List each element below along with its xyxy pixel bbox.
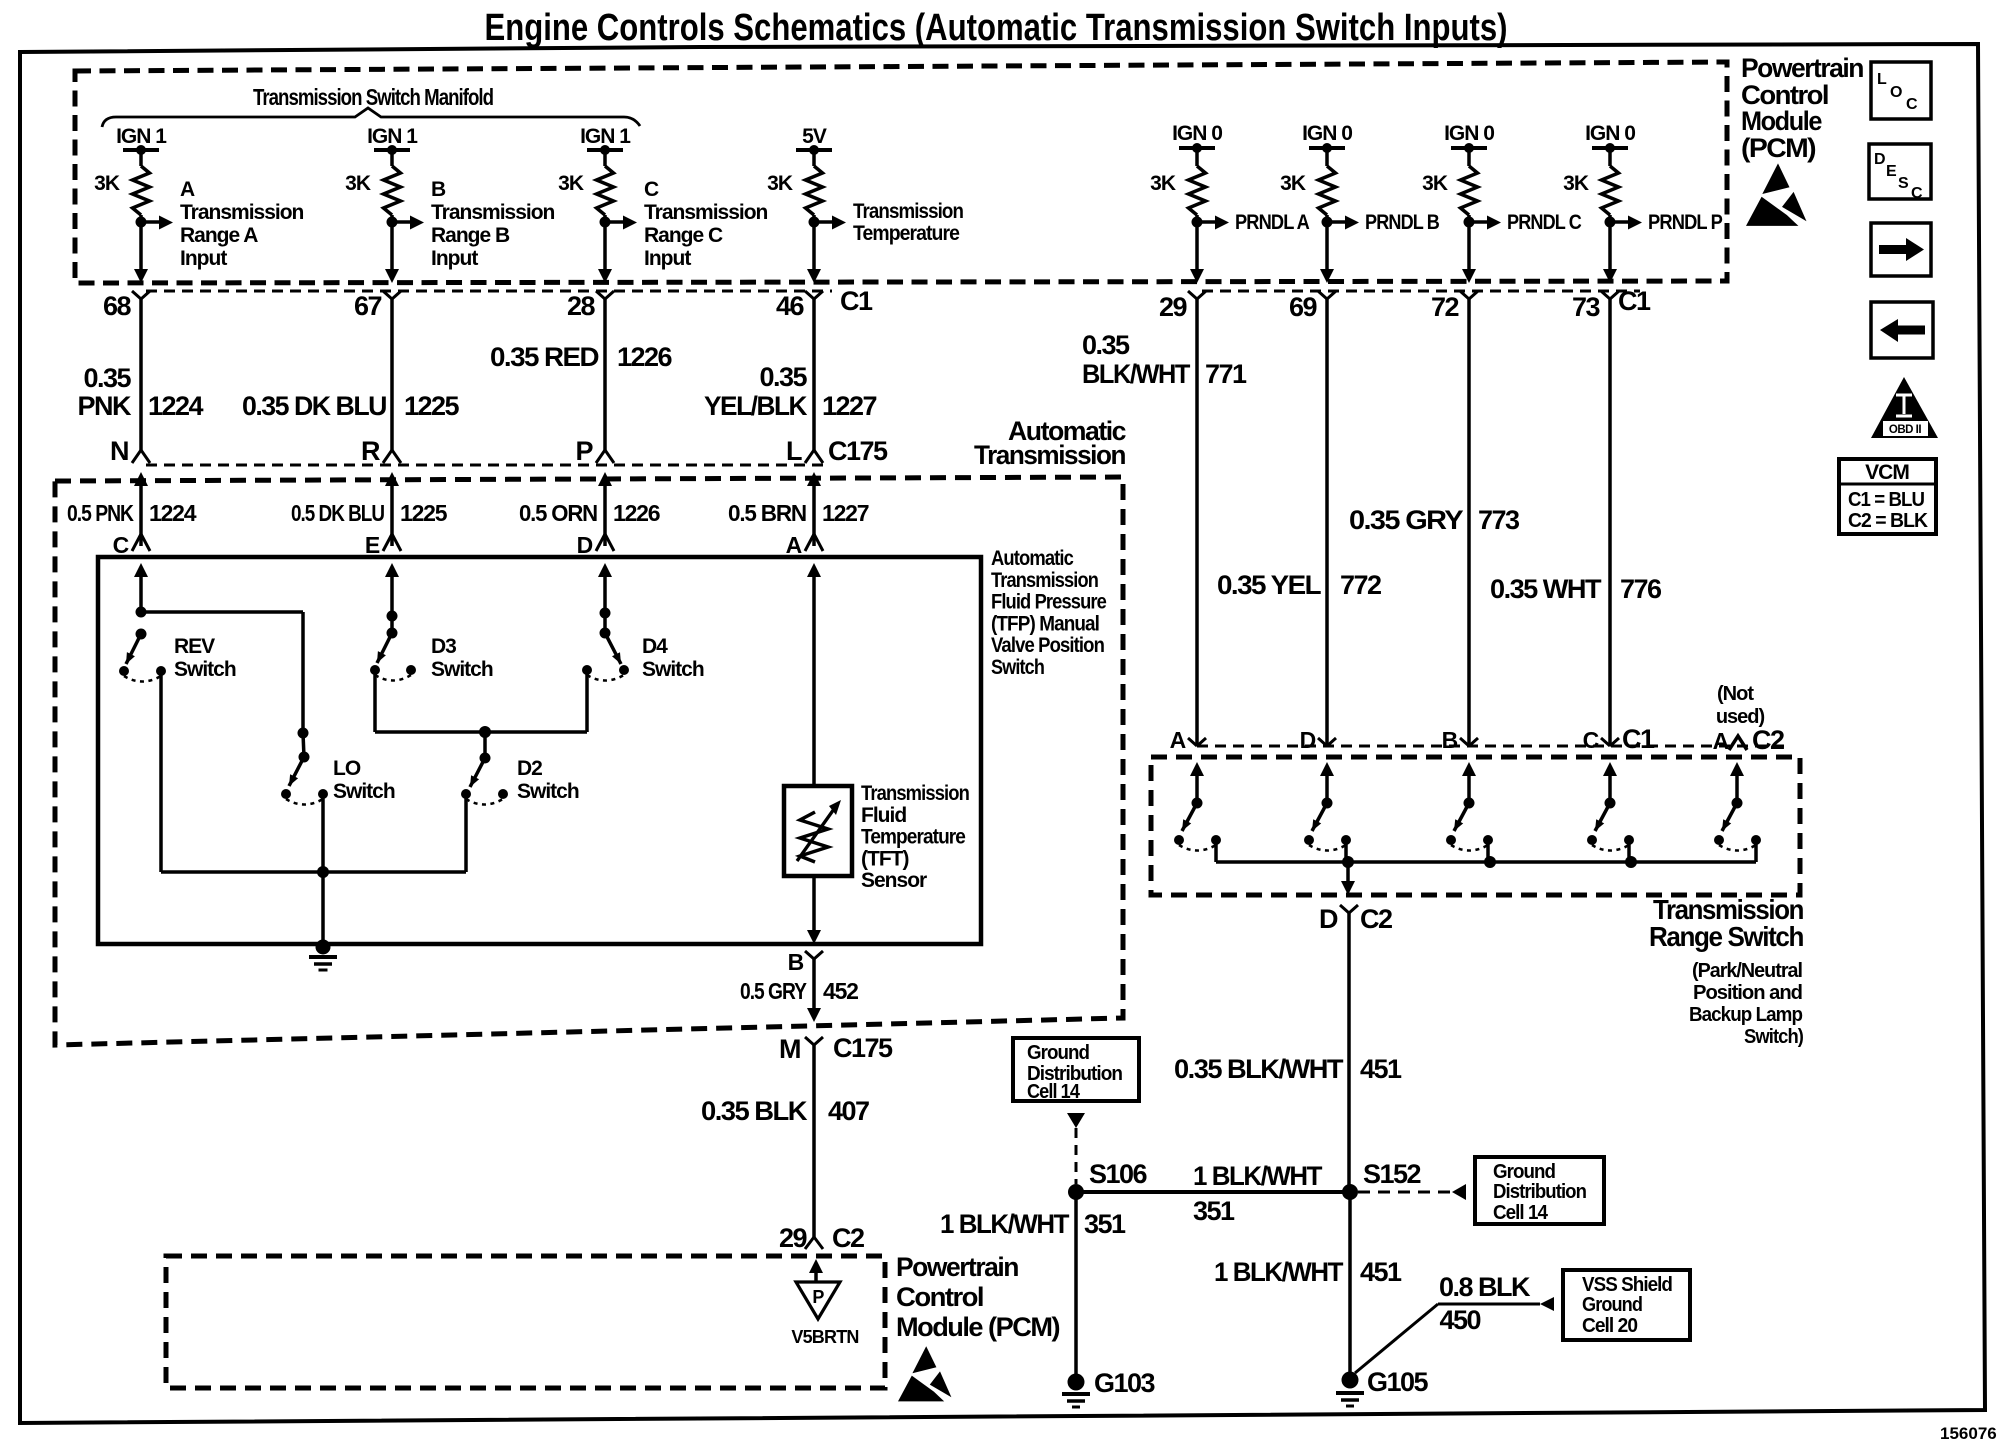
svg-text:Switch: Switch xyxy=(431,658,493,681)
wire into TFP switch xyxy=(385,563,399,577)
arrowhead into connector C1 pin 29 xyxy=(1190,269,1204,283)
svg-text:776: 776 xyxy=(1620,574,1662,604)
svg-text:Switch): Switch) xyxy=(1744,1026,1803,1048)
svg-text:Ground: Ground xyxy=(1493,1161,1555,1183)
signal arrow PRNDL B xyxy=(1327,220,1345,224)
wire 1226 ORN (C175-P to TFP-D) xyxy=(598,472,612,486)
resistor R1 3K xyxy=(133,166,150,215)
signal arrow C xyxy=(605,220,623,224)
signal arrow Transmission Temperature xyxy=(814,220,832,224)
svg-text:IGN 0: IGN 0 xyxy=(1444,122,1494,145)
wire 1224 PNK (C175-N to TFP-C) xyxy=(134,472,148,486)
svg-text:0.5 ORN: 0.5 ORN xyxy=(519,500,598,526)
svg-text:S106: S106 xyxy=(1089,1159,1148,1189)
svg-text:IGN 1: IGN 1 xyxy=(580,125,631,148)
svg-text:D2: D2 xyxy=(517,757,542,780)
svg-text:L: L xyxy=(786,436,802,466)
wire ground bus of TFP switch xyxy=(161,870,466,874)
wire D2 contact down to bus xyxy=(464,794,468,872)
svg-text:Transmission: Transmission xyxy=(974,440,1125,470)
svg-text:0.5 GRY: 0.5 GRY xyxy=(740,978,807,1004)
svg-text:C1: C1 xyxy=(1622,724,1655,754)
wire branch to LO switch xyxy=(301,612,305,733)
svg-text:46: 46 xyxy=(776,291,805,321)
connector pin D of TFP switch xyxy=(596,534,614,551)
PCM top dashed box (Powertrain Control Module) xyxy=(75,62,1727,283)
wire 772 YEL (pin 69 to TRS-D) xyxy=(1325,299,1329,744)
svg-text:Transmission: Transmission xyxy=(431,201,555,224)
svg-text:IGN 1: IGN 1 xyxy=(116,125,167,148)
svg-text:3K: 3K xyxy=(345,172,371,195)
svg-text:D: D xyxy=(1300,727,1316,753)
connector C1/C2 dashed boundary (Transmission Range Switch) xyxy=(1197,745,1790,748)
node D2 feed junction xyxy=(479,726,491,738)
svg-text:0.8 BLK: 0.8 BLK xyxy=(1439,1272,1531,1302)
svg-text:IGN 0: IGN 0 xyxy=(1585,122,1635,145)
svg-text:P: P xyxy=(812,1287,824,1307)
D2 Switch xyxy=(483,732,487,758)
brace under Transmission Switch Manifold xyxy=(102,108,640,127)
dashed link S152 to Ground Distribution Cell 14 xyxy=(1358,1191,1452,1194)
svg-text:D: D xyxy=(1319,904,1338,934)
svg-text:D: D xyxy=(1874,151,1886,168)
svg-text:Powertrain: Powertrain xyxy=(896,1252,1018,1282)
D3 Switch xyxy=(387,611,398,622)
svg-text:M: M xyxy=(779,1034,800,1064)
icon DESC box xyxy=(1869,144,1931,199)
wire TRS output to connector D C2 xyxy=(1346,862,1350,883)
svg-text:BLK/WHT: BLK/WHT xyxy=(1082,359,1191,389)
svg-text:0.35: 0.35 xyxy=(759,362,807,392)
svg-text:452: 452 xyxy=(823,978,858,1004)
svg-text:O: O xyxy=(1890,84,1902,101)
wire D3 contact down to bus xyxy=(373,670,377,732)
svg-text:C175: C175 xyxy=(828,436,888,466)
wire TRS common bus xyxy=(1216,860,1756,864)
wire TRS contact to common bus xyxy=(1344,840,1348,862)
connector C1 pin 67 xyxy=(383,291,401,299)
signal arrow A xyxy=(141,220,159,224)
ground G105 xyxy=(1342,1372,1359,1389)
connector C1 pin 72 xyxy=(1460,291,1478,299)
icon arrow left box xyxy=(1871,302,1933,358)
svg-text:(TFP) Manual: (TFP) Manual xyxy=(991,612,1099,635)
svg-text:Input: Input xyxy=(644,247,691,270)
svg-text:Cell 14: Cell 14 xyxy=(1027,1081,1081,1103)
svg-text:Switch: Switch xyxy=(991,656,1044,679)
TRS switch element xyxy=(1190,762,1204,776)
Transmission Range Switch dashed box xyxy=(1151,757,1800,895)
connector pin E of TFP switch xyxy=(383,534,401,551)
svg-text:Control: Control xyxy=(896,1282,983,1312)
svg-text:P: P xyxy=(575,436,593,466)
svg-text:Range C: Range C xyxy=(644,224,723,247)
svg-text:IGN 0: IGN 0 xyxy=(1302,122,1352,145)
wire from R4 to PCM pin 46 xyxy=(812,215,816,270)
svg-text:0.5 BRN: 0.5 BRN xyxy=(728,500,807,526)
svg-text:(PCM): (PCM) xyxy=(1741,133,1816,163)
wire from R6 to PCM pin 69 xyxy=(1325,215,1329,270)
icon OBD II triangle xyxy=(1871,377,1938,438)
svg-text:IGN 0: IGN 0 xyxy=(1172,122,1222,145)
svg-text:Ground: Ground xyxy=(1027,1042,1089,1064)
svg-text:Switch: Switch xyxy=(333,780,395,803)
ground G103 xyxy=(1068,1374,1085,1391)
svg-text:Position and: Position and xyxy=(1693,982,1802,1004)
wire from R8 to PCM pin 73 xyxy=(1608,215,1612,270)
svg-text:VCM: VCM xyxy=(1865,461,1909,484)
wire LO contact down to bus xyxy=(321,794,325,872)
svg-text:N: N xyxy=(110,436,128,466)
svg-text:Powertrain: Powertrain xyxy=(1741,53,1863,83)
svg-text:A: A xyxy=(180,178,195,201)
svg-text:Input: Input xyxy=(431,247,478,270)
connector C1 pin 73 xyxy=(1601,291,1619,299)
connector C175 pin P xyxy=(596,450,614,463)
svg-text:C: C xyxy=(1583,727,1599,753)
TRS switch element xyxy=(1603,762,1617,776)
svg-text:B: B xyxy=(431,178,446,201)
connector C1 pin A of TRS xyxy=(1188,738,1206,746)
TRS switch element xyxy=(1730,762,1744,776)
PCM bottom dashed box (Powertrain Control Module) xyxy=(166,1256,885,1388)
arrowhead into connector C1 pin 67 xyxy=(385,269,399,283)
svg-text:VSS Shield: VSS Shield xyxy=(1582,1274,1672,1296)
svg-text:E: E xyxy=(365,532,380,558)
svg-text:1 BLK/WHT: 1 BLK/WHT xyxy=(1214,1257,1344,1287)
svg-text:73: 73 xyxy=(1572,292,1601,322)
Automatic Transmission dashed box xyxy=(55,477,1123,1045)
svg-text:PRNDL B: PRNDL B xyxy=(1365,211,1440,234)
TRS switch element xyxy=(1320,762,1334,776)
svg-text:C2: C2 xyxy=(1360,904,1392,934)
VSS Shield Ground Cell 20 box xyxy=(1563,1270,1690,1340)
svg-text:Sensor: Sensor xyxy=(861,869,927,892)
svg-text:G105: G105 xyxy=(1367,1367,1429,1397)
svg-text:Fluid: Fluid xyxy=(861,804,906,827)
svg-text:Switch: Switch xyxy=(174,658,236,681)
connector pin C of TFP switch xyxy=(132,534,150,551)
svg-text:67: 67 xyxy=(354,291,382,321)
svg-text:D4: D4 xyxy=(642,635,668,658)
wire 1225 DK BLU (pin 67 to C175-R) xyxy=(390,299,394,450)
svg-text:C175: C175 xyxy=(833,1033,893,1063)
svg-text:Transmission: Transmission xyxy=(644,201,768,224)
svg-text:3K: 3K xyxy=(558,172,584,195)
svg-text:1 BLK/WHT: 1 BLK/WHT xyxy=(1193,1161,1323,1191)
svg-text:0.35: 0.35 xyxy=(83,363,131,393)
connector C1 dashed boundary (right) xyxy=(1202,290,1640,293)
svg-text:451: 451 xyxy=(1360,1054,1402,1084)
wire from R5 to PCM pin 29 xyxy=(1195,215,1199,270)
wire REV contact down to bus xyxy=(159,671,163,872)
svg-text:Automatic: Automatic xyxy=(991,547,1074,570)
svg-text:A: A xyxy=(1713,728,1729,754)
svg-text:72: 72 xyxy=(1431,292,1459,322)
TRS switch element xyxy=(1462,762,1476,776)
REV Switch xyxy=(136,607,147,618)
wire into TFP switch xyxy=(598,563,612,577)
svg-text:G103: G103 xyxy=(1094,1368,1156,1398)
wire TRS contact to common bus xyxy=(1754,840,1758,862)
connector C1 pin 28 xyxy=(596,291,614,299)
svg-text:C2: C2 xyxy=(1752,725,1784,755)
arrowhead into connector C1 pin 46 xyxy=(807,269,821,283)
svg-text:(Not: (Not xyxy=(1717,683,1754,705)
svg-text:REV: REV xyxy=(174,635,215,658)
signal arrow PRNDL P xyxy=(1610,220,1628,224)
svg-text:Switch: Switch xyxy=(517,780,579,803)
wire TRS contact to common bus xyxy=(1214,840,1218,862)
wire 1227 YEL/BLK (pin 46 to C175-L) xyxy=(812,299,816,450)
Ground Distribution Cell 14 box (upper) xyxy=(1013,1038,1139,1101)
svg-text:1 BLK/WHT: 1 BLK/WHT xyxy=(940,1209,1070,1239)
svg-text:3K: 3K xyxy=(94,172,120,195)
svg-text:V5BRTN: V5BRTN xyxy=(791,1327,858,1347)
connector C1 dashed boundary (left) xyxy=(146,290,832,293)
wire into PCM V5BRTN xyxy=(809,1259,823,1273)
resistor R3 3K xyxy=(597,166,614,215)
resistor R4 3K xyxy=(806,166,823,215)
svg-text:D: D xyxy=(577,532,593,558)
svg-text:PRNDL C: PRNDL C xyxy=(1507,211,1582,234)
svg-text:3K: 3K xyxy=(1422,172,1448,195)
svg-text:407: 407 xyxy=(828,1096,869,1126)
svg-text:Range B: Range B xyxy=(431,224,510,247)
svg-text:0.35 BLK/WHT: 0.35 BLK/WHT xyxy=(1174,1054,1344,1084)
connector C175 pin N xyxy=(132,450,150,463)
wire 773 GRY (pin 72 to TRS-B) xyxy=(1467,299,1471,744)
ESD sensitive symbol (bottom PCM) xyxy=(912,1346,936,1373)
arrowhead into connector C1 pin 73 xyxy=(1603,269,1617,283)
dashed link Ground Distribution to S106 xyxy=(1067,1113,1085,1128)
svg-text:29: 29 xyxy=(779,1223,808,1253)
svg-text:(Park/Neutral: (Park/Neutral xyxy=(1692,960,1802,982)
resistor R8 3K xyxy=(1602,166,1619,215)
svg-text:Range A: Range A xyxy=(180,224,258,247)
connector C1 pin D of TRS xyxy=(1318,738,1336,746)
wire TFT sensor to pin B xyxy=(812,876,816,932)
svg-text:Fluid Pressure: Fluid Pressure xyxy=(991,591,1106,614)
svg-text:771: 771 xyxy=(1205,359,1247,389)
ESD sensitive symbol (top PCM) xyxy=(1762,163,1789,194)
arrowhead into connector C1 pin 72 xyxy=(1462,269,1476,283)
svg-text:351: 351 xyxy=(1084,1209,1126,1239)
svg-text:Module (PCM): Module (PCM) xyxy=(896,1312,1059,1342)
wire 351 BLK/WHT (S106 to S152) xyxy=(1076,1190,1350,1194)
wire 407 BLK (C175-M to PCM pin 29 C2) xyxy=(812,1045,816,1237)
svg-text:0.5 PNK: 0.5 PNK xyxy=(67,500,134,526)
svg-text:29: 29 xyxy=(1159,292,1188,322)
svg-text:1224: 1224 xyxy=(148,391,204,421)
svg-text:A: A xyxy=(1170,727,1186,753)
TFT sensor (Transmission Fluid Temperature) xyxy=(784,786,852,876)
connector C1 pin C of TRS xyxy=(1601,738,1619,746)
svg-text:PRNDL P: PRNDL P xyxy=(1648,211,1723,234)
svg-text:3K: 3K xyxy=(1150,172,1176,195)
svg-text:1224: 1224 xyxy=(149,500,197,526)
svg-text:1226: 1226 xyxy=(613,500,660,526)
svg-text:0.5 DK BLU: 0.5 DK BLU xyxy=(291,500,384,526)
svg-text:0.35 RED: 0.35 RED xyxy=(490,342,599,372)
svg-text:Transmission: Transmission xyxy=(180,201,304,224)
signal arrow B xyxy=(392,220,410,224)
svg-text:YEL/BLK: YEL/BLK xyxy=(704,391,808,421)
icon arrow right box xyxy=(1871,223,1931,276)
svg-text:C1: C1 xyxy=(840,286,873,316)
signal arrow PRNDL A xyxy=(1197,220,1215,224)
arrowhead into connector C1 pin 68 xyxy=(134,269,148,283)
D4 Switch xyxy=(600,608,611,619)
svg-text:Transmission Switch Manifold: Transmission Switch Manifold xyxy=(253,84,493,110)
svg-text:0.35 DK BLU: 0.35 DK BLU xyxy=(242,391,386,421)
wire 1227 BRN (C175-L to TFP-A) xyxy=(807,472,821,486)
connector C1 pin B of TRS xyxy=(1460,738,1478,746)
svg-text:A: A xyxy=(786,532,802,558)
connector C175 dashed boundary xyxy=(146,464,830,467)
wire from R1 to PCM pin 68 xyxy=(139,215,143,270)
svg-text:S152: S152 xyxy=(1363,1159,1421,1189)
ground (TFP switch case) xyxy=(316,940,331,955)
svg-text:Input: Input xyxy=(180,247,227,270)
svg-text:C2: C2 xyxy=(832,1223,864,1253)
svg-text:Cell 20: Cell 20 xyxy=(1582,1315,1638,1337)
connector C1 pin 69 xyxy=(1318,291,1336,299)
connector pin A of TFP switch xyxy=(805,534,823,551)
svg-text:3K: 3K xyxy=(767,172,793,195)
svg-text:L: L xyxy=(1877,71,1887,88)
resistor R5 3K xyxy=(1189,166,1206,215)
svg-text:28: 28 xyxy=(567,291,596,321)
svg-text:1227: 1227 xyxy=(822,500,869,526)
svg-text:68: 68 xyxy=(103,291,132,321)
svg-text:C1 = BLU: C1 = BLU xyxy=(1848,489,1925,511)
svg-text:Engine Controls Schematics (Au: Engine Controls Schematics (Automatic Tr… xyxy=(485,7,1508,49)
svg-text:Module: Module xyxy=(1741,106,1822,136)
wire TRS contact to common bus xyxy=(1486,840,1490,862)
resistor R6 3K xyxy=(1319,166,1336,215)
svg-text:Ground: Ground xyxy=(1582,1294,1642,1316)
wire into TFP switch xyxy=(134,563,148,577)
signal arrow PRNDL C xyxy=(1469,220,1487,224)
svg-text:R: R xyxy=(361,436,380,466)
svg-text:PRNDL A: PRNDL A xyxy=(1235,211,1310,234)
svg-text:1225: 1225 xyxy=(400,500,448,526)
svg-text:Transmission: Transmission xyxy=(853,200,963,223)
node bus junctions xyxy=(1342,856,1354,868)
connector C175 pin L xyxy=(805,450,823,463)
svg-text:C: C xyxy=(1906,96,1918,113)
wire 1226 RED (pin 28 to C175-P) xyxy=(603,299,607,450)
svg-text:Range Switch: Range Switch xyxy=(1649,921,1803,952)
wire 452 GRY (TFP-B to C175-M) xyxy=(812,959,816,1010)
resistor R7 3K xyxy=(1461,166,1478,215)
svg-text:351: 351 xyxy=(1193,1196,1235,1226)
svg-text:Distribution: Distribution xyxy=(1493,1181,1586,1203)
wire 776 WHT (pin 73 to TRS-C) xyxy=(1608,299,1612,744)
arrowhead into connector C1 pin 69 xyxy=(1320,269,1334,283)
node S152 xyxy=(1342,1184,1358,1200)
svg-text:E: E xyxy=(1886,163,1897,180)
svg-text:3K: 3K xyxy=(1563,172,1589,195)
voltage reference P (V5BRTN) xyxy=(796,1282,840,1319)
svg-text:B: B xyxy=(1442,727,1458,753)
svg-text:450: 450 xyxy=(1439,1305,1480,1335)
svg-text:Switch: Switch xyxy=(642,658,704,681)
svg-text:3K: 3K xyxy=(1280,172,1306,195)
wire 771 BLK/WHT (pin 29 to TRS-A) xyxy=(1195,299,1199,744)
wire D4 contact down to bus xyxy=(585,670,589,732)
svg-text:1226: 1226 xyxy=(617,342,673,372)
wire 1225 DK BLU (C175-R to TFP-E) xyxy=(385,472,399,486)
svg-text:0.35 YEL: 0.35 YEL xyxy=(1217,570,1321,600)
resistor R2 3K xyxy=(384,166,401,215)
svg-text:1227: 1227 xyxy=(822,391,877,421)
node S106 xyxy=(1068,1184,1084,1200)
svg-text:1225: 1225 xyxy=(404,391,460,421)
node ground junction xyxy=(317,866,329,878)
wire from R3 to PCM pin 28 xyxy=(603,215,607,270)
svg-text:69: 69 xyxy=(1289,292,1318,322)
wire TRS contact to common bus xyxy=(1627,840,1631,862)
svg-text:5V: 5V xyxy=(802,125,827,148)
svg-text:C: C xyxy=(113,532,129,558)
VCM connector color legend box xyxy=(1839,459,1936,534)
svg-text:(TFT): (TFT) xyxy=(861,847,908,870)
svg-text:Valve Position: Valve Position xyxy=(991,634,1104,657)
connector C1 pin 68 xyxy=(132,291,150,299)
svg-text:C: C xyxy=(644,178,659,201)
connector C175 pin R xyxy=(383,450,401,463)
svg-text:Temperature: Temperature xyxy=(853,222,959,245)
svg-text:Transmission: Transmission xyxy=(991,569,1098,592)
svg-text:772: 772 xyxy=(1340,570,1381,600)
TFP manual valve position switch box xyxy=(98,557,981,944)
icon LOC box xyxy=(1871,62,1931,119)
wire bus D3-D4 xyxy=(375,730,587,734)
svg-text:Temperature: Temperature xyxy=(861,826,965,849)
svg-text:0.35 WHT: 0.35 WHT xyxy=(1490,574,1602,604)
svg-text:B: B xyxy=(788,949,804,975)
svg-text:C: C xyxy=(1911,185,1923,202)
svg-text:LO: LO xyxy=(333,757,361,780)
svg-text:IGN 1: IGN 1 xyxy=(367,125,418,148)
svg-text:0.35 GRY: 0.35 GRY xyxy=(1349,505,1464,535)
connector C1 pin 29 xyxy=(1188,291,1206,299)
wire from R2 to PCM pin 67 xyxy=(390,215,394,270)
svg-text:156076: 156076 xyxy=(1940,1424,1997,1440)
svg-text:0.35 BLK: 0.35 BLK xyxy=(701,1096,808,1126)
svg-text:451: 451 xyxy=(1360,1257,1402,1287)
wire to ground xyxy=(321,872,325,944)
svg-text:Backup Lamp: Backup Lamp xyxy=(1689,1004,1803,1026)
wire into TFT sensor xyxy=(807,563,821,577)
svg-text:0.35: 0.35 xyxy=(1082,330,1130,360)
wire from R7 to PCM pin 72 xyxy=(1467,215,1471,270)
svg-text:Transmission: Transmission xyxy=(861,782,969,805)
wire 1224 PNK (pin 68 to C175-N) xyxy=(139,299,143,450)
svg-text:OBD II: OBD II xyxy=(1889,424,1921,436)
svg-text:Cell 14: Cell 14 xyxy=(1493,1202,1549,1224)
svg-text:S: S xyxy=(1898,175,1909,192)
connector C1 pin 46 xyxy=(805,291,823,299)
svg-text:PNK: PNK xyxy=(77,391,132,421)
svg-text:773: 773 xyxy=(1478,505,1520,535)
wire 450 BLK (G105 shield to VSS) xyxy=(1355,1304,1438,1373)
wire 451 BLK/WHT (TRS-D to S152) xyxy=(1347,913,1351,1192)
svg-text:D3: D3 xyxy=(431,635,456,658)
arrowhead into connector C1 pin 28 xyxy=(598,269,612,283)
